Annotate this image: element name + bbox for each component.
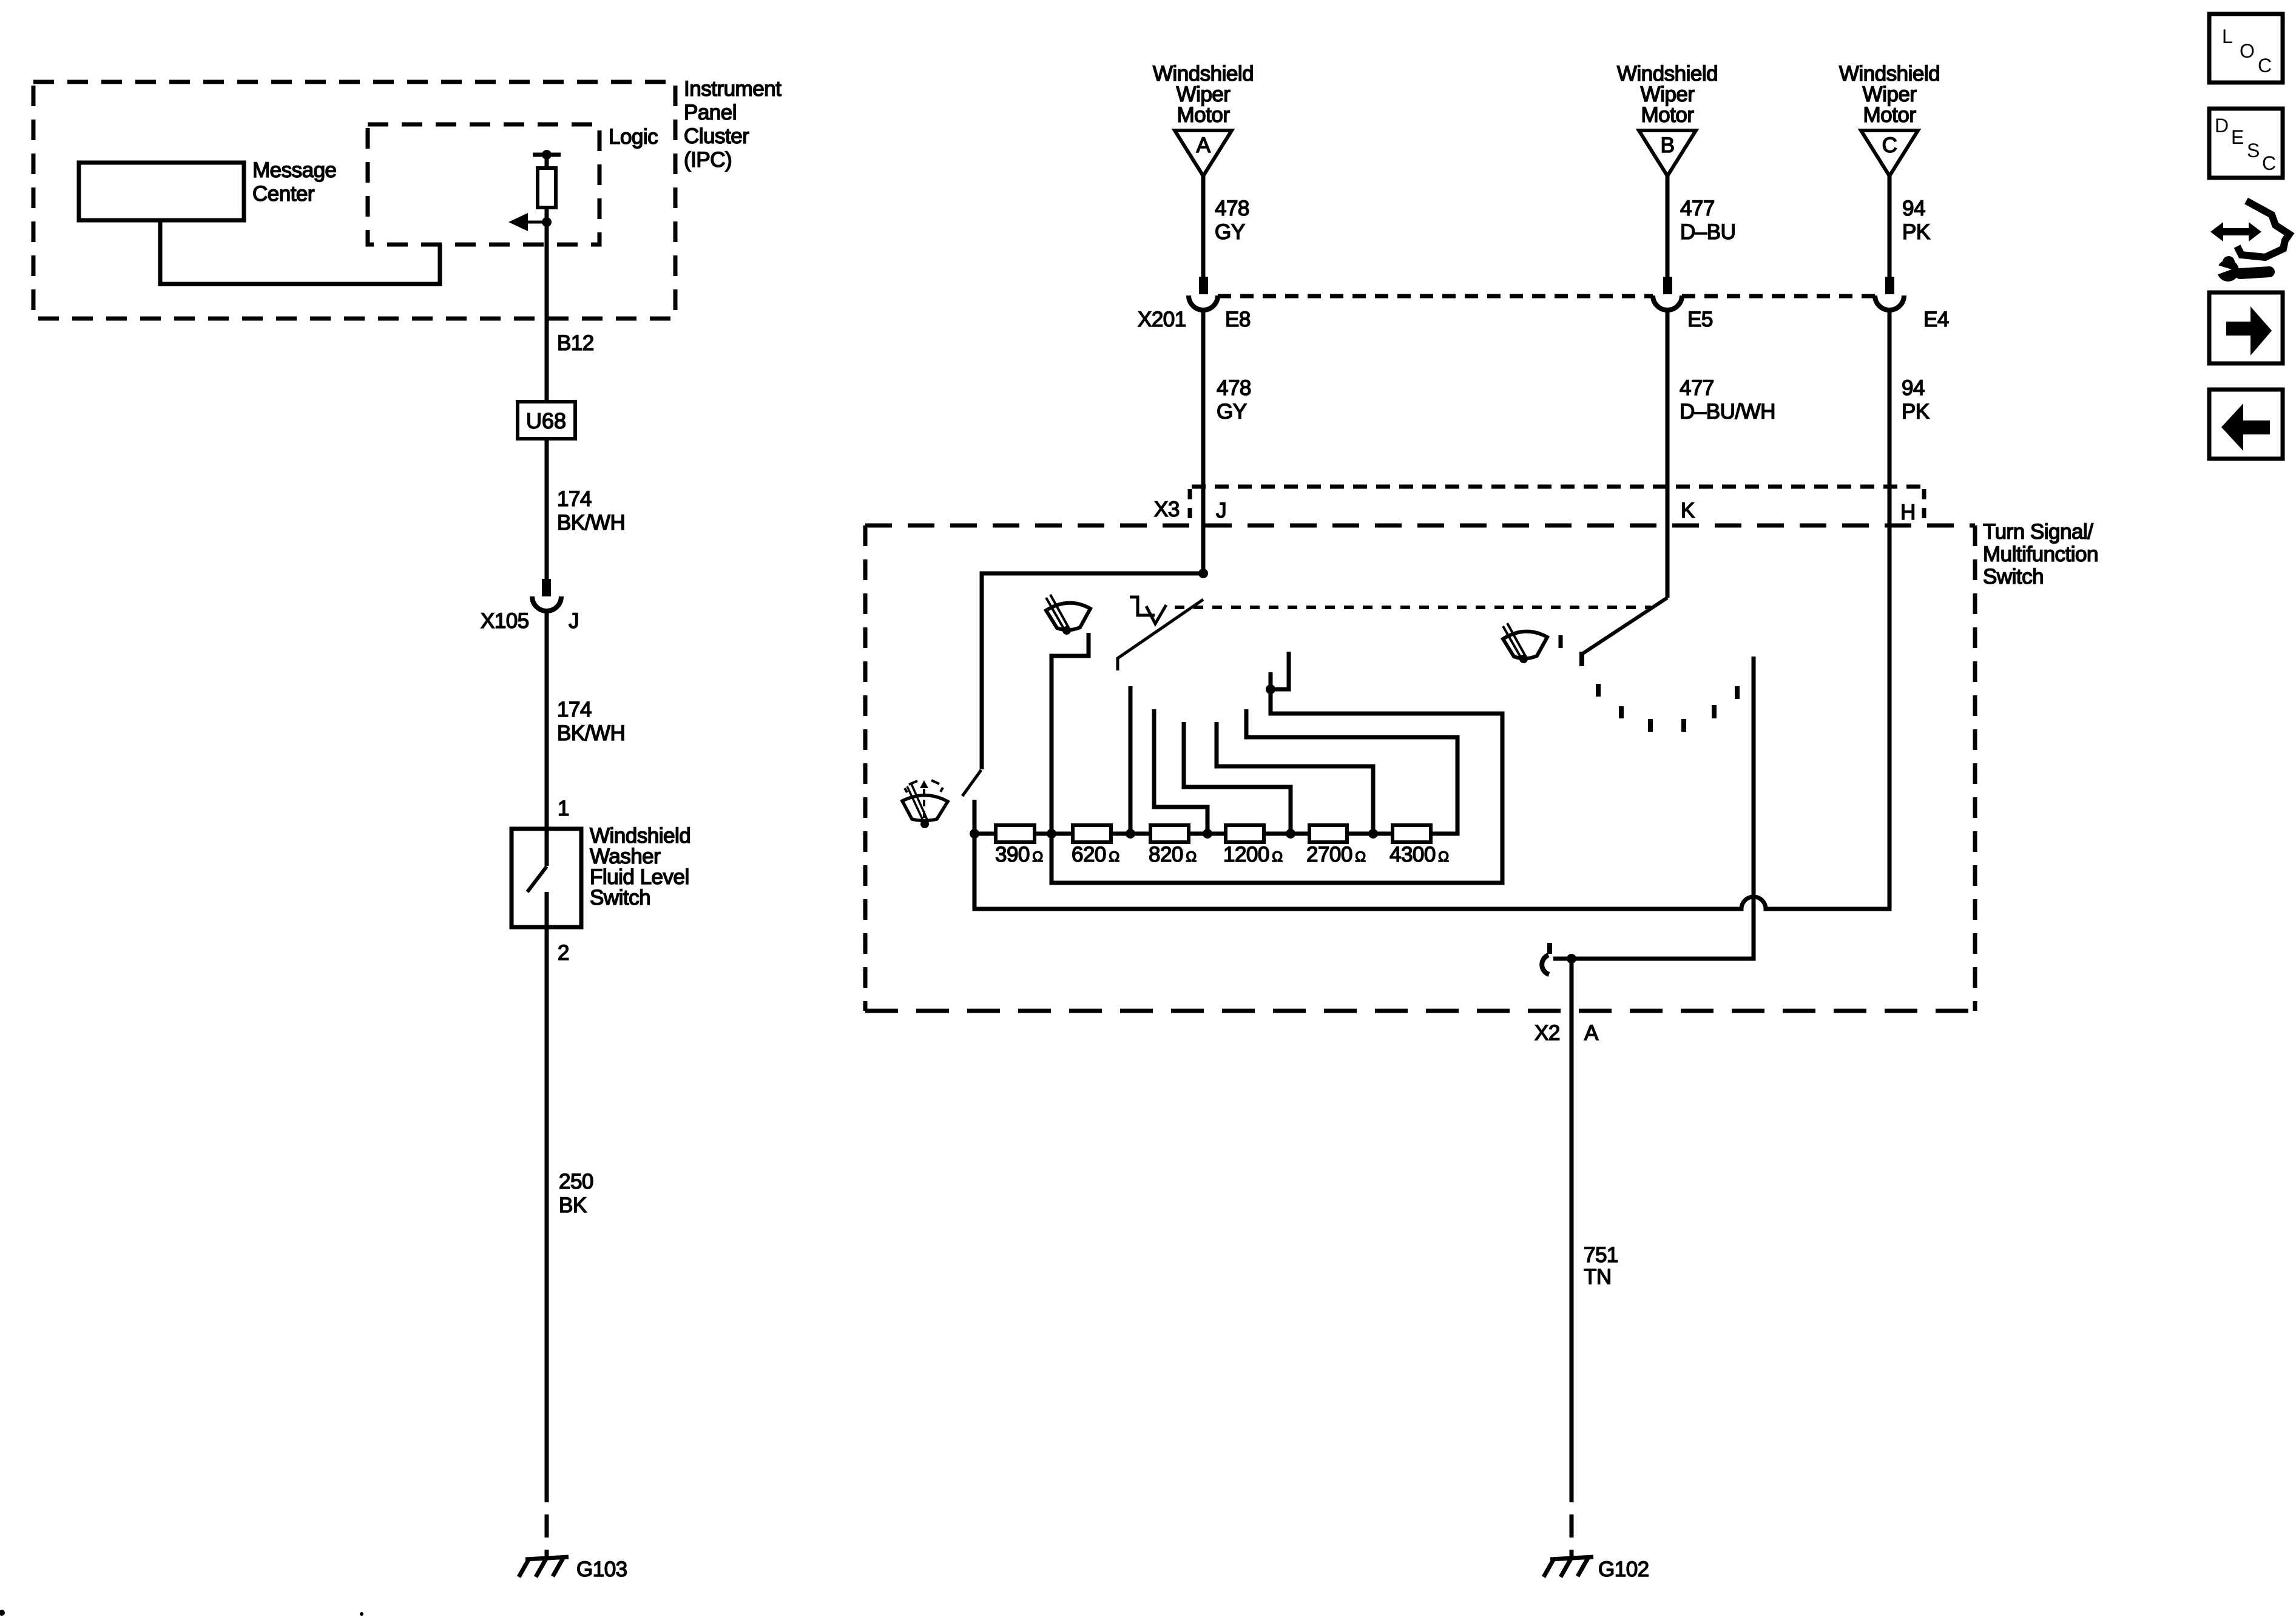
svg-text:B12: B12: [557, 331, 594, 355]
node: wiper switch input junction: [1198, 569, 1208, 578]
wire 477 D-BU/WH from E5 down to switch: [1666, 310, 1670, 598]
OFF position contact wire: [1129, 686, 1133, 834]
svg-text:Panel: Panel: [684, 101, 737, 124]
main wiper switch blade: [1118, 599, 1203, 670]
Windshield Washer Fluid Level Switch box S1: [512, 829, 581, 927]
node chain left end: [970, 829, 979, 839]
svg-text:E: E: [2231, 126, 2244, 148]
delay contact wire from tap 5: [1217, 722, 1373, 834]
svg-text:1: 1: [558, 797, 569, 820]
intermittent symbol: [1130, 597, 1166, 624]
node chain tap 3: [1203, 829, 1212, 839]
svg-text:L: L: [2222, 25, 2233, 47]
resistor chain wire: [974, 709, 1457, 834]
fuse U68 box: [518, 402, 575, 439]
svg-text:GY: GY: [1215, 220, 1245, 244]
svg-text:O: O: [2240, 40, 2255, 62]
wire motor C to X201: [1888, 176, 1892, 277]
mist switch blade: [962, 770, 981, 796]
dashed wire to G102: [1570, 1479, 1574, 1557]
svg-text:BK: BK: [559, 1193, 587, 1217]
svg-text:C: C: [2262, 152, 2276, 174]
wire 751 TN to ground: [1570, 959, 1574, 1479]
resistor 4300 ohm: [1393, 825, 1431, 842]
svg-text:S: S: [2247, 140, 2260, 161]
contact stub near icon B: [1559, 635, 1563, 648]
ground G102: [1544, 1557, 1593, 1577]
wire mist contact to chain: [973, 800, 977, 834]
svg-text:K: K: [1681, 499, 1695, 522]
DESC nav box: [2209, 109, 2283, 178]
svg-text:J: J: [569, 609, 579, 633]
svg-text:A: A: [1197, 133, 1211, 157]
LOC nav box: [2209, 14, 2283, 83]
svg-text:Switch: Switch: [1983, 565, 2044, 589]
svg-text:Instrument: Instrument: [684, 77, 782, 101]
page mark dot 2: [360, 1612, 363, 1616]
wire 174 BK/WH from X105 to switch pin 1: [545, 611, 549, 866]
dashed wire to G103: [545, 1479, 549, 1557]
wire 478 GY from E8 down to switch junction: [1201, 310, 1206, 573]
svg-text:250: 250: [559, 1170, 593, 1193]
resistor 390 ohm: [996, 825, 1035, 842]
svg-text:E5: E5: [1687, 308, 1713, 331]
svg-text:X105: X105: [481, 609, 529, 633]
svg-text:477: 477: [1680, 376, 1714, 400]
delay contact wire from tap 4: [1184, 722, 1291, 834]
Logic dashed box: [368, 124, 599, 245]
svg-text:A: A: [1584, 1021, 1599, 1045]
svg-text:478: 478: [1217, 376, 1251, 400]
wire 94 PK from E4 down, across and up to resistor chain: [974, 310, 1889, 909]
wire switch B contact to X2 terminal: [1553, 657, 1754, 959]
connector X105 pin J: [532, 579, 561, 611]
svg-text:Turn Signal/: Turn Signal/: [1983, 520, 2093, 544]
svg-text:Switch: Switch: [590, 886, 650, 910]
motor C triangle: [1861, 130, 1918, 176]
wrench icon: [2210, 256, 2269, 282]
svg-text:BK/WH: BK/WH: [557, 511, 625, 535]
motor B triangle: [1639, 130, 1696, 176]
wire motor A to X201: [1201, 176, 1206, 277]
mechanical linkage dashed line: [1175, 606, 1651, 609]
connector X201 pin E5: [1653, 277, 1682, 310]
svg-text:GY: GY: [1217, 400, 1247, 424]
wiper switch B blade: [1582, 598, 1667, 654]
wire 250 BK switch to ground: [545, 892, 549, 1479]
resistor 620 ohm: [1073, 825, 1111, 842]
dashed connector line E8 to E5: [1218, 294, 1653, 299]
switch blade S1: [527, 866, 547, 892]
svg-text:B: B: [1661, 133, 1675, 157]
node chain tap 1: [1047, 829, 1056, 839]
node chain tap 4: [1286, 829, 1295, 839]
dashed connector line E5 to E4: [1682, 294, 1875, 299]
washer circuit wire loop: [1052, 689, 1502, 883]
node chain tap 2: [1126, 829, 1135, 839]
resistor R1 (IPC logic sensing resistor): [533, 150, 561, 222]
svg-text:E8: E8: [1225, 308, 1251, 331]
svg-text:D–BU: D–BU: [1680, 220, 1735, 244]
back arrow nav box: [2209, 390, 2283, 459]
connector X3 dashed outline: [1190, 487, 1924, 525]
Message Center box: [79, 163, 244, 220]
svg-text:J: J: [1216, 499, 1226, 522]
washer switch contact: [1266, 652, 1289, 694]
delay contact wire from tap 3: [1154, 709, 1207, 834]
svg-text:PK: PK: [1902, 220, 1930, 244]
forward arrow nav box: [2209, 292, 2283, 363]
wiper icon LO (switch A): [1046, 595, 1090, 635]
svg-text:PK: PK: [1902, 400, 1930, 424]
svg-text:BK/WH: BK/WH: [557, 721, 625, 745]
svg-text:Multifunction: Multifunction: [1983, 542, 2098, 566]
svg-text:Motor: Motor: [1177, 103, 1231, 127]
connector X201 pin E8: [1189, 277, 1218, 310]
svg-text:Cluster: Cluster: [684, 124, 749, 148]
wire 174 BK/WH from U68 to X105: [545, 439, 549, 579]
svg-text:D: D: [2215, 115, 2229, 137]
connector X201 pin E4: [1875, 277, 1904, 310]
node chain tap 5: [1368, 829, 1378, 839]
svg-text:Message: Message: [252, 158, 337, 182]
svg-text:174: 174: [557, 487, 592, 511]
wiper icon HI (switch B): [1503, 623, 1547, 663]
svg-text:94: 94: [1902, 376, 1925, 400]
resistor 820 ohm: [1150, 825, 1189, 842]
svg-text:G102: G102: [1598, 1558, 1649, 1581]
svg-text:X2: X2: [1535, 1021, 1560, 1045]
svg-text:751: 751: [1584, 1243, 1618, 1267]
wire junction to mist switch: [982, 573, 1203, 769]
svg-text:Logic: Logic: [609, 125, 658, 149]
LO position contact wire to 620 ohm tap: [1052, 633, 1089, 834]
mist wiper icon (dashed): [902, 780, 948, 828]
svg-text:2: 2: [558, 941, 569, 965]
svg-text:Center: Center: [252, 182, 315, 206]
svg-text:G103: G103: [576, 1558, 627, 1581]
arrow (signal out to left): [508, 213, 552, 231]
ground G103: [519, 1557, 569, 1577]
svg-text:U68: U68: [526, 408, 566, 433]
wire Message Center to Logic: [160, 220, 440, 284]
dashed travel arc of switch B: [1598, 684, 1737, 732]
svg-text:E4: E4: [1923, 308, 1949, 331]
svg-text:C: C: [1882, 133, 1897, 157]
svg-text:D–BU/WH: D–BU/WH: [1680, 400, 1775, 424]
IPC dashed box: Instrument Panel Cluster: [33, 82, 675, 319]
svg-text:H: H: [1900, 501, 1916, 524]
connector X2 terminal A: [1542, 943, 1576, 974]
svg-text:477: 477: [1680, 197, 1715, 220]
svg-text:TN: TN: [1584, 1265, 1612, 1289]
svg-text:94: 94: [1902, 197, 1925, 220]
page mark dot: [0, 1610, 5, 1616]
resistor 2700 ohm: [1309, 825, 1347, 842]
svg-text:Motor: Motor: [1641, 103, 1695, 127]
adjust tool icon: [2210, 201, 2289, 257]
svg-text:X201: X201: [1138, 308, 1186, 331]
Turn Signal / Multifunction Switch dashed box: [865, 525, 1975, 1011]
svg-text:Motor: Motor: [1863, 103, 1917, 127]
svg-text:C: C: [2258, 55, 2272, 76]
svg-text:(IPC): (IPC): [684, 148, 732, 172]
motor A triangle: [1175, 130, 1232, 176]
svg-text:174: 174: [557, 698, 592, 721]
svg-text:478: 478: [1215, 197, 1249, 220]
svg-text:X3: X3: [1154, 498, 1180, 521]
wire B12 from logic to U68: [545, 222, 549, 402]
resistor 1200 ohm: [1226, 825, 1264, 842]
wire motor B to X201: [1666, 176, 1670, 277]
